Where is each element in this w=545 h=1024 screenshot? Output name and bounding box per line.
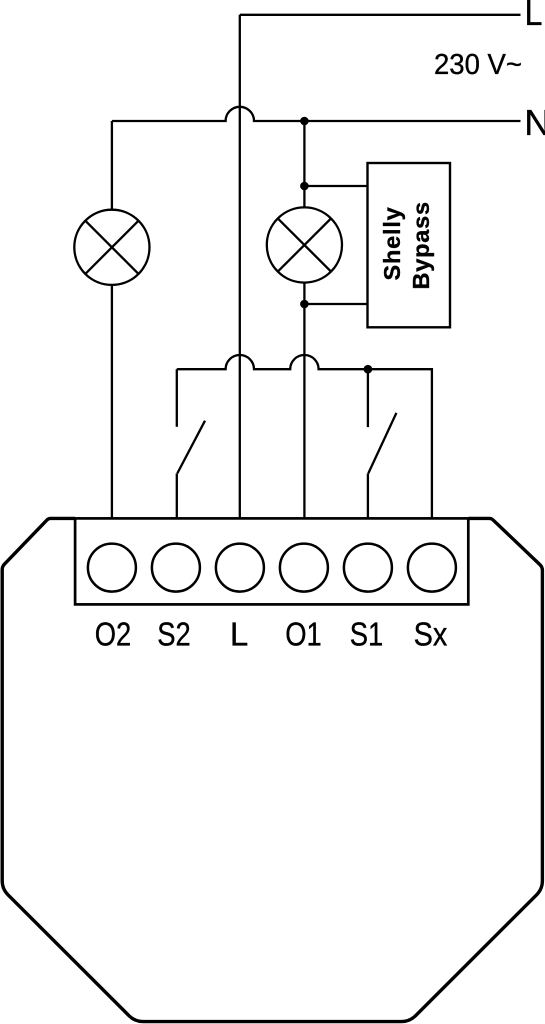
junction dot on N line: [300, 117, 309, 126]
wire lamp E2 to terminal O1: [303, 283, 305, 520]
junction dot bypass top: [300, 182, 309, 191]
wire switch SW1 to terminal S2: [176, 473, 178, 519]
svg-text:L: L: [230, 616, 248, 653]
terminal block: [75, 518, 468, 604]
svg-text:S2: S2: [157, 616, 191, 653]
wire N horizontal with hop over L wire: [112, 107, 521, 121]
terminal S1: [344, 544, 392, 592]
wire L top horizontal: [240, 14, 521, 16]
svg-text:230 V~: 230 V~: [434, 49, 522, 81]
terminal O2: [88, 544, 136, 592]
svg-text:Bypass: Bypass: [408, 201, 434, 289]
wire L vertical down to terminal L: [239, 15, 241, 519]
wire bypass bottom: [304, 303, 367, 305]
Shelly Bypass label: [379, 201, 434, 289]
svg-text:N: N: [524, 102, 545, 143]
junction dot switch S1: [364, 365, 373, 374]
terminal O1: [280, 544, 328, 592]
terminal S2: [152, 544, 200, 592]
switch row wire with hops over L and O1 wires: [177, 355, 432, 519]
svg-text:O2: O2: [95, 616, 132, 653]
svg-text:Shelly: Shelly: [379, 206, 405, 280]
junction dot bypass bottom: [300, 300, 309, 309]
wire switch SW2 to terminal S1: [367, 473, 369, 519]
terminal L: [216, 544, 264, 592]
switch SW1 blade: [177, 421, 205, 474]
wire lamp E1 to terminal O2: [111, 285, 113, 519]
svg-text:S1: S1: [350, 616, 384, 653]
wire bypass top: [304, 185, 367, 187]
svg-text:O1: O1: [285, 616, 322, 653]
Shelly Bypass box: [368, 163, 451, 327]
svg-text:L: L: [525, 0, 543, 33]
switch SW2 blade: [368, 413, 396, 474]
lamp E1: [74, 210, 149, 285]
terminal Sx: [408, 544, 456, 592]
switch SW1 top contact: [176, 369, 178, 427]
wire N down-left to lamp E1: [111, 121, 113, 210]
wire N junction to lamp E2: [303, 121, 305, 208]
device body outline: [2, 518, 542, 1021]
svg-text:Sx: Sx: [414, 616, 448, 653]
lamp E2: [267, 207, 342, 282]
switch SW2 top contact: [367, 369, 369, 427]
